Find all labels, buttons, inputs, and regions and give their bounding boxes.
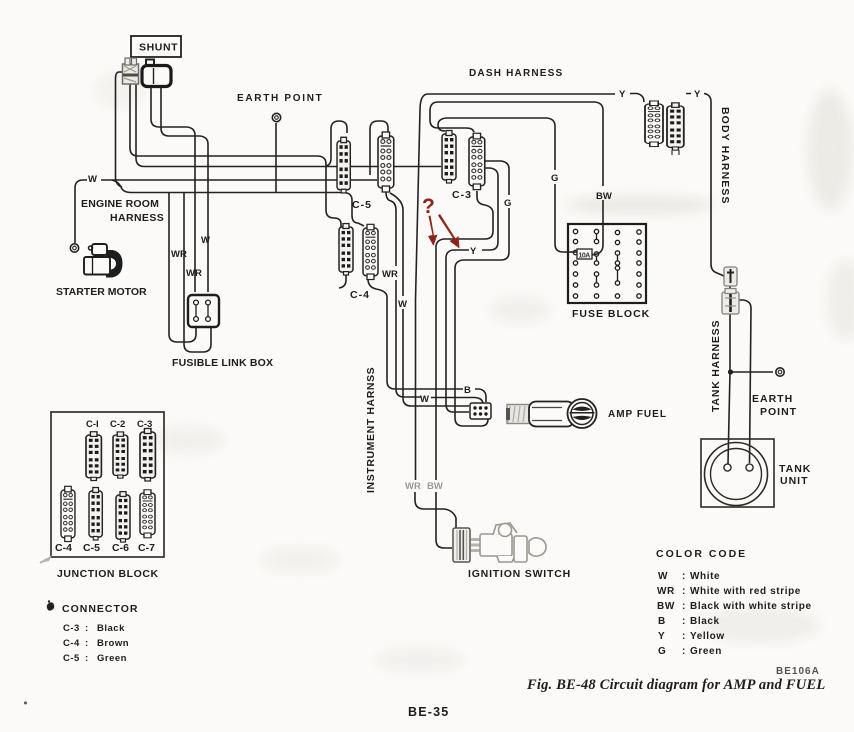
svg-text:POINT: POINT: [760, 406, 797, 418]
svg-text::: :: [682, 571, 686, 582]
svg-text:WR: WR: [171, 249, 187, 260]
svg-text:W: W: [398, 299, 407, 310]
svg-text:INSTRUMENT HARNSS: INSTRUMENT HARNSS: [365, 367, 377, 493]
svg-text::: :: [85, 638, 89, 649]
svg-text:HARNESS: HARNESS: [110, 212, 164, 224]
svg-text:Black: Black: [97, 623, 125, 634]
svg-text:W: W: [88, 174, 97, 185]
svg-text:BW: BW: [596, 191, 612, 202]
svg-text:W: W: [420, 394, 429, 405]
svg-text:C-5: C-5: [63, 653, 80, 664]
svg-text:C-6: C-6: [112, 542, 129, 554]
svg-text:C-4: C-4: [63, 638, 80, 649]
svg-text:C-I: C-I: [86, 419, 99, 430]
svg-text:WR: WR: [382, 269, 398, 280]
svg-text:WR: WR: [657, 586, 675, 597]
svg-text::: :: [682, 586, 686, 597]
svg-text:WR: WR: [186, 268, 202, 279]
svg-text:Fig. BE-48 Circuit diagram fo: Fig. BE-48 Circuit diagram for AMP and F…: [526, 677, 825, 693]
svg-text:UNIT: UNIT: [780, 475, 809, 487]
svg-text:White with red stripe: White with red stripe: [690, 586, 801, 597]
svg-text:White: White: [690, 571, 720, 582]
svg-text::: :: [85, 623, 89, 634]
svg-text:TANK: TANK: [779, 463, 811, 475]
svg-text:WR: WR: [405, 481, 421, 492]
svg-text:IGNITION SWITCH: IGNITION SWITCH: [468, 568, 571, 580]
svg-text:DASH HARNESS: DASH HARNESS: [469, 68, 563, 79]
svg-text::: :: [682, 601, 686, 612]
svg-text:AMP FUEL: AMP FUEL: [608, 409, 667, 420]
svg-text:FUSE BLOCK: FUSE BLOCK: [572, 308, 650, 320]
svg-text:Green: Green: [97, 653, 127, 664]
svg-text:C-4: C-4: [350, 289, 370, 301]
svg-text:C-7: C-7: [138, 542, 155, 554]
svg-text:W: W: [658, 571, 668, 582]
svg-text:ENGINE ROOM: ENGINE ROOM: [81, 198, 159, 210]
svg-text:BE106A: BE106A: [776, 666, 820, 677]
svg-text:Y: Y: [619, 89, 626, 100]
svg-text:G: G: [658, 646, 666, 657]
svg-text:C-3: C-3: [63, 623, 80, 634]
svg-text:Brown: Brown: [97, 638, 129, 649]
svg-text:TANK HARNESS: TANK HARNESS: [710, 320, 722, 412]
svg-text:CONNECTOR: CONNECTOR: [62, 603, 138, 615]
svg-text:C-4: C-4: [55, 542, 72, 554]
svg-text:Y: Y: [694, 89, 701, 100]
svg-text:BE-35: BE-35: [408, 705, 449, 719]
svg-text:EARTH POINT: EARTH POINT: [237, 93, 323, 104]
svg-text:B: B: [658, 616, 666, 627]
svg-text::: :: [85, 653, 89, 664]
svg-text:Black with white stripe: Black with white stripe: [690, 601, 812, 612]
svg-text:G: G: [504, 198, 511, 209]
svg-text:JUNCTION BLOCK: JUNCTION BLOCK: [57, 568, 159, 580]
svg-text::: :: [682, 616, 686, 627]
svg-text:W: W: [201, 235, 210, 246]
svg-text:STARTER MOTOR: STARTER MOTOR: [56, 286, 147, 298]
svg-text::: :: [682, 646, 686, 657]
svg-text:SHUNT: SHUNT: [139, 42, 178, 54]
svg-text:C-5: C-5: [352, 199, 372, 211]
svg-text:Y: Y: [470, 246, 477, 257]
svg-text:10A: 10A: [579, 253, 591, 260]
svg-text:Yellow: Yellow: [690, 631, 725, 642]
svg-text:BW: BW: [657, 601, 675, 612]
svg-text:C-3: C-3: [452, 189, 472, 201]
svg-text:COLOR CODE: COLOR CODE: [656, 548, 747, 560]
svg-text:?: ?: [422, 195, 435, 218]
svg-text:C-5: C-5: [83, 542, 100, 554]
svg-text:C-2: C-2: [110, 419, 125, 430]
svg-text:Y: Y: [658, 631, 665, 642]
svg-text:G: G: [551, 173, 558, 184]
svg-text:B: B: [464, 385, 471, 396]
svg-text:Black: Black: [690, 616, 720, 627]
svg-text:BW: BW: [427, 481, 443, 492]
svg-text:Green: Green: [690, 646, 722, 657]
svg-text:FUSIBLE LINK BOX: FUSIBLE LINK BOX: [172, 357, 273, 369]
svg-text::: :: [682, 631, 686, 642]
svg-text:BODY HARNESS: BODY HARNESS: [719, 107, 731, 205]
svg-text:EARTH: EARTH: [752, 393, 793, 405]
svg-text:C-3: C-3: [137, 419, 152, 430]
